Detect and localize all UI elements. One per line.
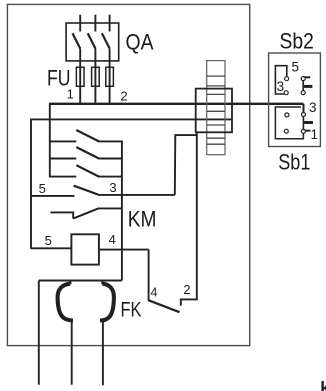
button Sb1 moving contact bottom — [301, 129, 305, 133]
terminal block rung 4 — [207, 110, 225, 112]
wire KM left edge drop — [30, 119, 32, 249]
switch QA blade pole 2 — [88, 33, 96, 48]
terminal block rung 1 — [207, 75, 225, 77]
svg-text:4: 4 — [151, 285, 158, 299]
button Sb2 fixed terminal top — [285, 77, 289, 81]
svg-text:5: 5 — [291, 59, 299, 74]
svg-text:KM: KM — [128, 207, 157, 232]
wire coil right — [99, 249, 149, 251]
heater FK left neck stub — [70, 281, 72, 285]
svg-text:2: 2 — [120, 88, 127, 103]
switch QA enclosure box — [66, 23, 119, 61]
button Sb2 moving contact top — [301, 77, 305, 81]
contactor KM main contact 2 right wire — [98, 158, 122, 160]
switch QA blade pole 1 — [73, 33, 81, 48]
svg-text:FK: FK — [121, 298, 142, 321]
contactor KM main contact 3 blade — [76, 165, 99, 176]
wire B to terminal block — [31, 118, 232, 120]
svg-text:1: 1 — [67, 87, 74, 102]
svg-text:3: 3 — [309, 100, 317, 115]
contactor KM hook contact seat — [72, 212, 74, 219]
contactor KM hook contact blade — [73, 208, 98, 218]
svg-text:5: 5 — [39, 181, 46, 196]
wire left bus drop — [49, 103, 51, 178]
terminal block wide box — [196, 89, 232, 133]
button Sb1 plunger bar — [303, 121, 313, 124]
wire coil left — [31, 247, 71, 249]
fuse FU pole 2 — [92, 67, 100, 86]
button Sb1 moving contact top — [301, 113, 305, 117]
wire motor lead middle — [71, 320, 73, 384]
wire motor lead left — [38, 281, 40, 385]
contactor KM aux contact 5-3 right wire — [98, 194, 174, 196]
wire riser from aux contact to terminal 2 column — [175, 135, 197, 195]
terminal block ladder column — [207, 61, 225, 155]
contactor KM aux contact 5-3 left wire — [31, 195, 75, 197]
fuse FU pole 1 — [76, 67, 84, 86]
switch QA blade pole 3 — [102, 33, 110, 48]
contactor KM main contact 2 left wire — [49, 158, 76, 160]
button Sb1 actuator stem — [302, 115, 304, 132]
wire A control line to buttons — [50, 103, 304, 105]
contactor KM hook contact right wire — [98, 207, 122, 209]
wire pole2 to fuse and bus — [94, 49, 96, 104]
svg-text:4: 4 — [109, 232, 116, 247]
button Sb2 actuator stem — [302, 77, 304, 94]
contactor KM main contact 3 left wire — [49, 176, 76, 178]
contactor KM main contact 1 blade — [76, 130, 99, 141]
svg-text:Sb1: Sb1 — [278, 150, 310, 175]
svg-text:Sb2: Sb2 — [280, 29, 314, 54]
terminal block rung 7 — [207, 143, 225, 145]
wire motor lead right — [102, 320, 104, 385]
svg-text:3: 3 — [277, 79, 285, 94]
fuse FU pole 3 — [106, 67, 114, 86]
button Sb2 moving contact bottom — [301, 91, 305, 95]
wire terminal 2 drop to FK contact — [196, 132, 198, 299]
button Sb2 plunger bar — [303, 85, 312, 88]
button station box — [269, 53, 321, 147]
wire A corner drop into Sb1 — [303, 104, 305, 113]
wire right bus of KM contacts — [121, 141, 123, 281]
coil KM box — [71, 234, 99, 264]
button Sb2 wire bracket — [275, 66, 286, 94]
svg-text:5: 5 — [45, 233, 52, 248]
wire drop to FK contact terminal 4 — [148, 250, 150, 302]
wire L2 incoming top — [94, 15, 96, 32]
terminal block rung 3 — [207, 93, 225, 95]
contactor KM aux contact 5-3 blade — [74, 186, 99, 195]
wire pole3 to fuse and bus — [109, 49, 111, 104]
heater FK right element arc — [100, 284, 114, 321]
relay FK contact seat hook — [181, 299, 197, 306]
terminal block rung 6 — [207, 137, 225, 139]
relay FK contact blade — [149, 300, 180, 312]
button Sb1 wire bracket — [275, 107, 303, 139]
svg-text:k: k — [320, 378, 326, 391]
heater FK right neck stub — [101, 281, 103, 285]
button Sb2 actuator top tip — [303, 76, 310, 78]
wire L1 incoming top — [79, 15, 81, 32]
button Sb1 fixed terminal bottom — [284, 129, 288, 133]
terminal block rung 5 — [207, 124, 225, 126]
button Sb1 actuator bottom tip — [303, 130, 310, 132]
heater FK supply link — [39, 280, 122, 282]
enclosure border frame — [7, 4, 249, 345]
button Sb2 fixed terminal bottom — [284, 91, 288, 95]
contactor KM hook contact left wire — [50, 211, 74, 213]
svg-text:2: 2 — [184, 283, 191, 297]
contactor KM main contact 2 blade — [76, 147, 99, 158]
wire L3 incoming top — [109, 15, 111, 32]
contactor KM main contact 1 left wire — [49, 140, 76, 142]
wire pole1 to fuse and bus — [79, 49, 81, 104]
svg-text:1: 1 — [310, 127, 318, 142]
button Sb1 fixed terminal top — [285, 113, 289, 117]
svg-text:3: 3 — [109, 180, 116, 195]
svg-text:QA: QA — [126, 30, 154, 55]
contactor KM main contact 3 right wire — [98, 176, 122, 178]
terminal block rung 2 — [207, 85, 225, 87]
heater FK left element arc — [58, 284, 73, 321]
contactor KM main contact 1 right wire — [98, 140, 122, 142]
